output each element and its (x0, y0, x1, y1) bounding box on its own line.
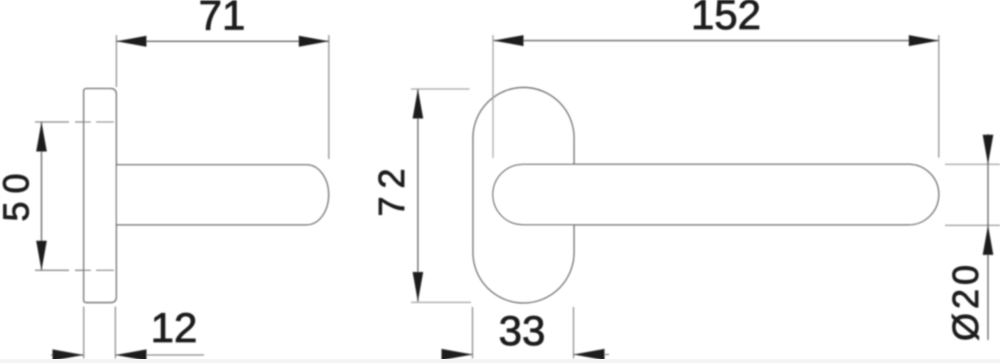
dimension 152 line (494, 40, 939, 42)
dimension 33 extension line right (573, 307, 575, 359)
dimension 71 extension line right (328, 35, 330, 159)
dimension 72 extension line bottom (411, 301, 471, 303)
dimension 152 extension line left (crosses rosette) (492, 35, 494, 158)
dashed hole centerline top (left view) (35, 121, 114, 123)
dimension 152 arrow right (909, 35, 939, 46)
dimension 33 line right tail (574, 354, 610, 356)
svg-text:Ø20: Ø20 (945, 261, 986, 341)
dimension 72 line (417, 89, 419, 302)
dimension 50 arrow down (36, 241, 47, 270)
dashed hole centerline bottom (left view) (35, 269, 114, 271)
svg-text:33: 33 (499, 307, 546, 354)
svg-text:72: 72 (371, 160, 412, 216)
dimension 12 line right tail (116, 354, 205, 356)
oval rosette front view (right view) (473, 88, 574, 303)
dimension D20 extension line top (945, 163, 1000, 165)
dimension D20 arrow up (983, 225, 994, 255)
lever front view (493, 164, 939, 225)
dimension D20 arrow down (983, 135, 994, 165)
dimension 12 extension line right (114, 307, 116, 359)
dimension 71 line (116, 40, 328, 42)
rosette side view (left view) (84, 89, 117, 303)
dimension 33 arrow left (442, 349, 473, 360)
dimension 50 arrow up (36, 122, 47, 152)
dimension 12 extension line left (83, 307, 85, 359)
dimension 71 arrow left (116, 36, 146, 47)
dimension D20 extension line bottom (945, 224, 1000, 226)
dimension 71 extension line left (115, 35, 117, 87)
bottom faint border (0, 359, 1000, 363)
dimension 12 arrow left (53, 349, 84, 360)
dimension 50 line (41, 122, 43, 270)
svg-text:50: 50 (0, 165, 37, 221)
dimension 72 arrow up (413, 89, 424, 119)
dimension 12 line left tail (51, 354, 84, 356)
svg-text:71: 71 (199, 0, 246, 39)
dimension 12 arrow right (116, 349, 147, 360)
dimension D20 line (987, 134, 989, 340)
dimension 71 arrow right (299, 36, 329, 47)
dimension 72 arrow down (413, 272, 424, 302)
joint line rosette/lever (115, 165, 117, 225)
svg-text:152: 152 (691, 0, 761, 38)
dimension 33 line left tail (443, 354, 473, 356)
dimension 152 arrow left (494, 35, 524, 46)
svg-text:12: 12 (151, 304, 198, 351)
dimension 33 arrow right (574, 349, 605, 360)
lever bar side view (112, 165, 329, 225)
dimension 33 extension line left (472, 307, 474, 359)
dimension 72 extension line top (411, 88, 470, 90)
dimension 152 extension line right (938, 35, 940, 158)
